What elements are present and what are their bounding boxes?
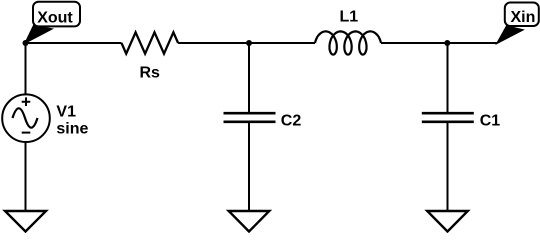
- svg-text:Xin: Xin: [511, 9, 536, 26]
- wire: [381, 42, 447, 44]
- wire: [447, 43, 449, 112]
- svg-text:C1: C1: [480, 113, 501, 130]
- capacitor C2: [224, 113, 276, 122]
- node after L1 junction dot: [444, 40, 450, 46]
- ground (right): [427, 211, 468, 232]
- wire: [25, 43, 27, 94]
- wire: [447, 123, 449, 211]
- ground (left): [5, 211, 46, 232]
- resistor Rs: [122, 32, 179, 53]
- voltage source sine wave: [13, 108, 38, 127]
- net flag Xin box: [505, 3, 539, 27]
- node after Rs junction dot: [246, 40, 252, 46]
- svg-text:C2: C2: [281, 113, 302, 130]
- svg-text:sine: sine: [56, 120, 88, 137]
- ground (middle): [229, 211, 270, 232]
- net flag Xout tail: [25, 25, 53, 43]
- wire: [447, 42, 497, 44]
- inductor L1: [315, 31, 381, 54]
- svg-text:Rs: Rs: [140, 65, 161, 82]
- voltage source plus sign: [22, 97, 31, 106]
- net flag Xin tail: [497, 26, 524, 44]
- capacitor C1: [422, 113, 474, 122]
- svg-text:L1: L1: [340, 9, 359, 26]
- wire: [249, 42, 315, 44]
- voltage source minus sign: [22, 132, 31, 134]
- svg-text:V1: V1: [56, 103, 76, 120]
- wire: [25, 142, 27, 211]
- node Xout junction dot: [23, 40, 29, 46]
- net flag Xout box: [33, 2, 80, 27]
- wire: [248, 43, 250, 112]
- voltage source V1 circle: [2, 94, 50, 142]
- svg-text:Xout: Xout: [37, 9, 73, 26]
- wire: [178, 42, 249, 44]
- wire: [26, 42, 122, 44]
- wire: [248, 123, 250, 211]
